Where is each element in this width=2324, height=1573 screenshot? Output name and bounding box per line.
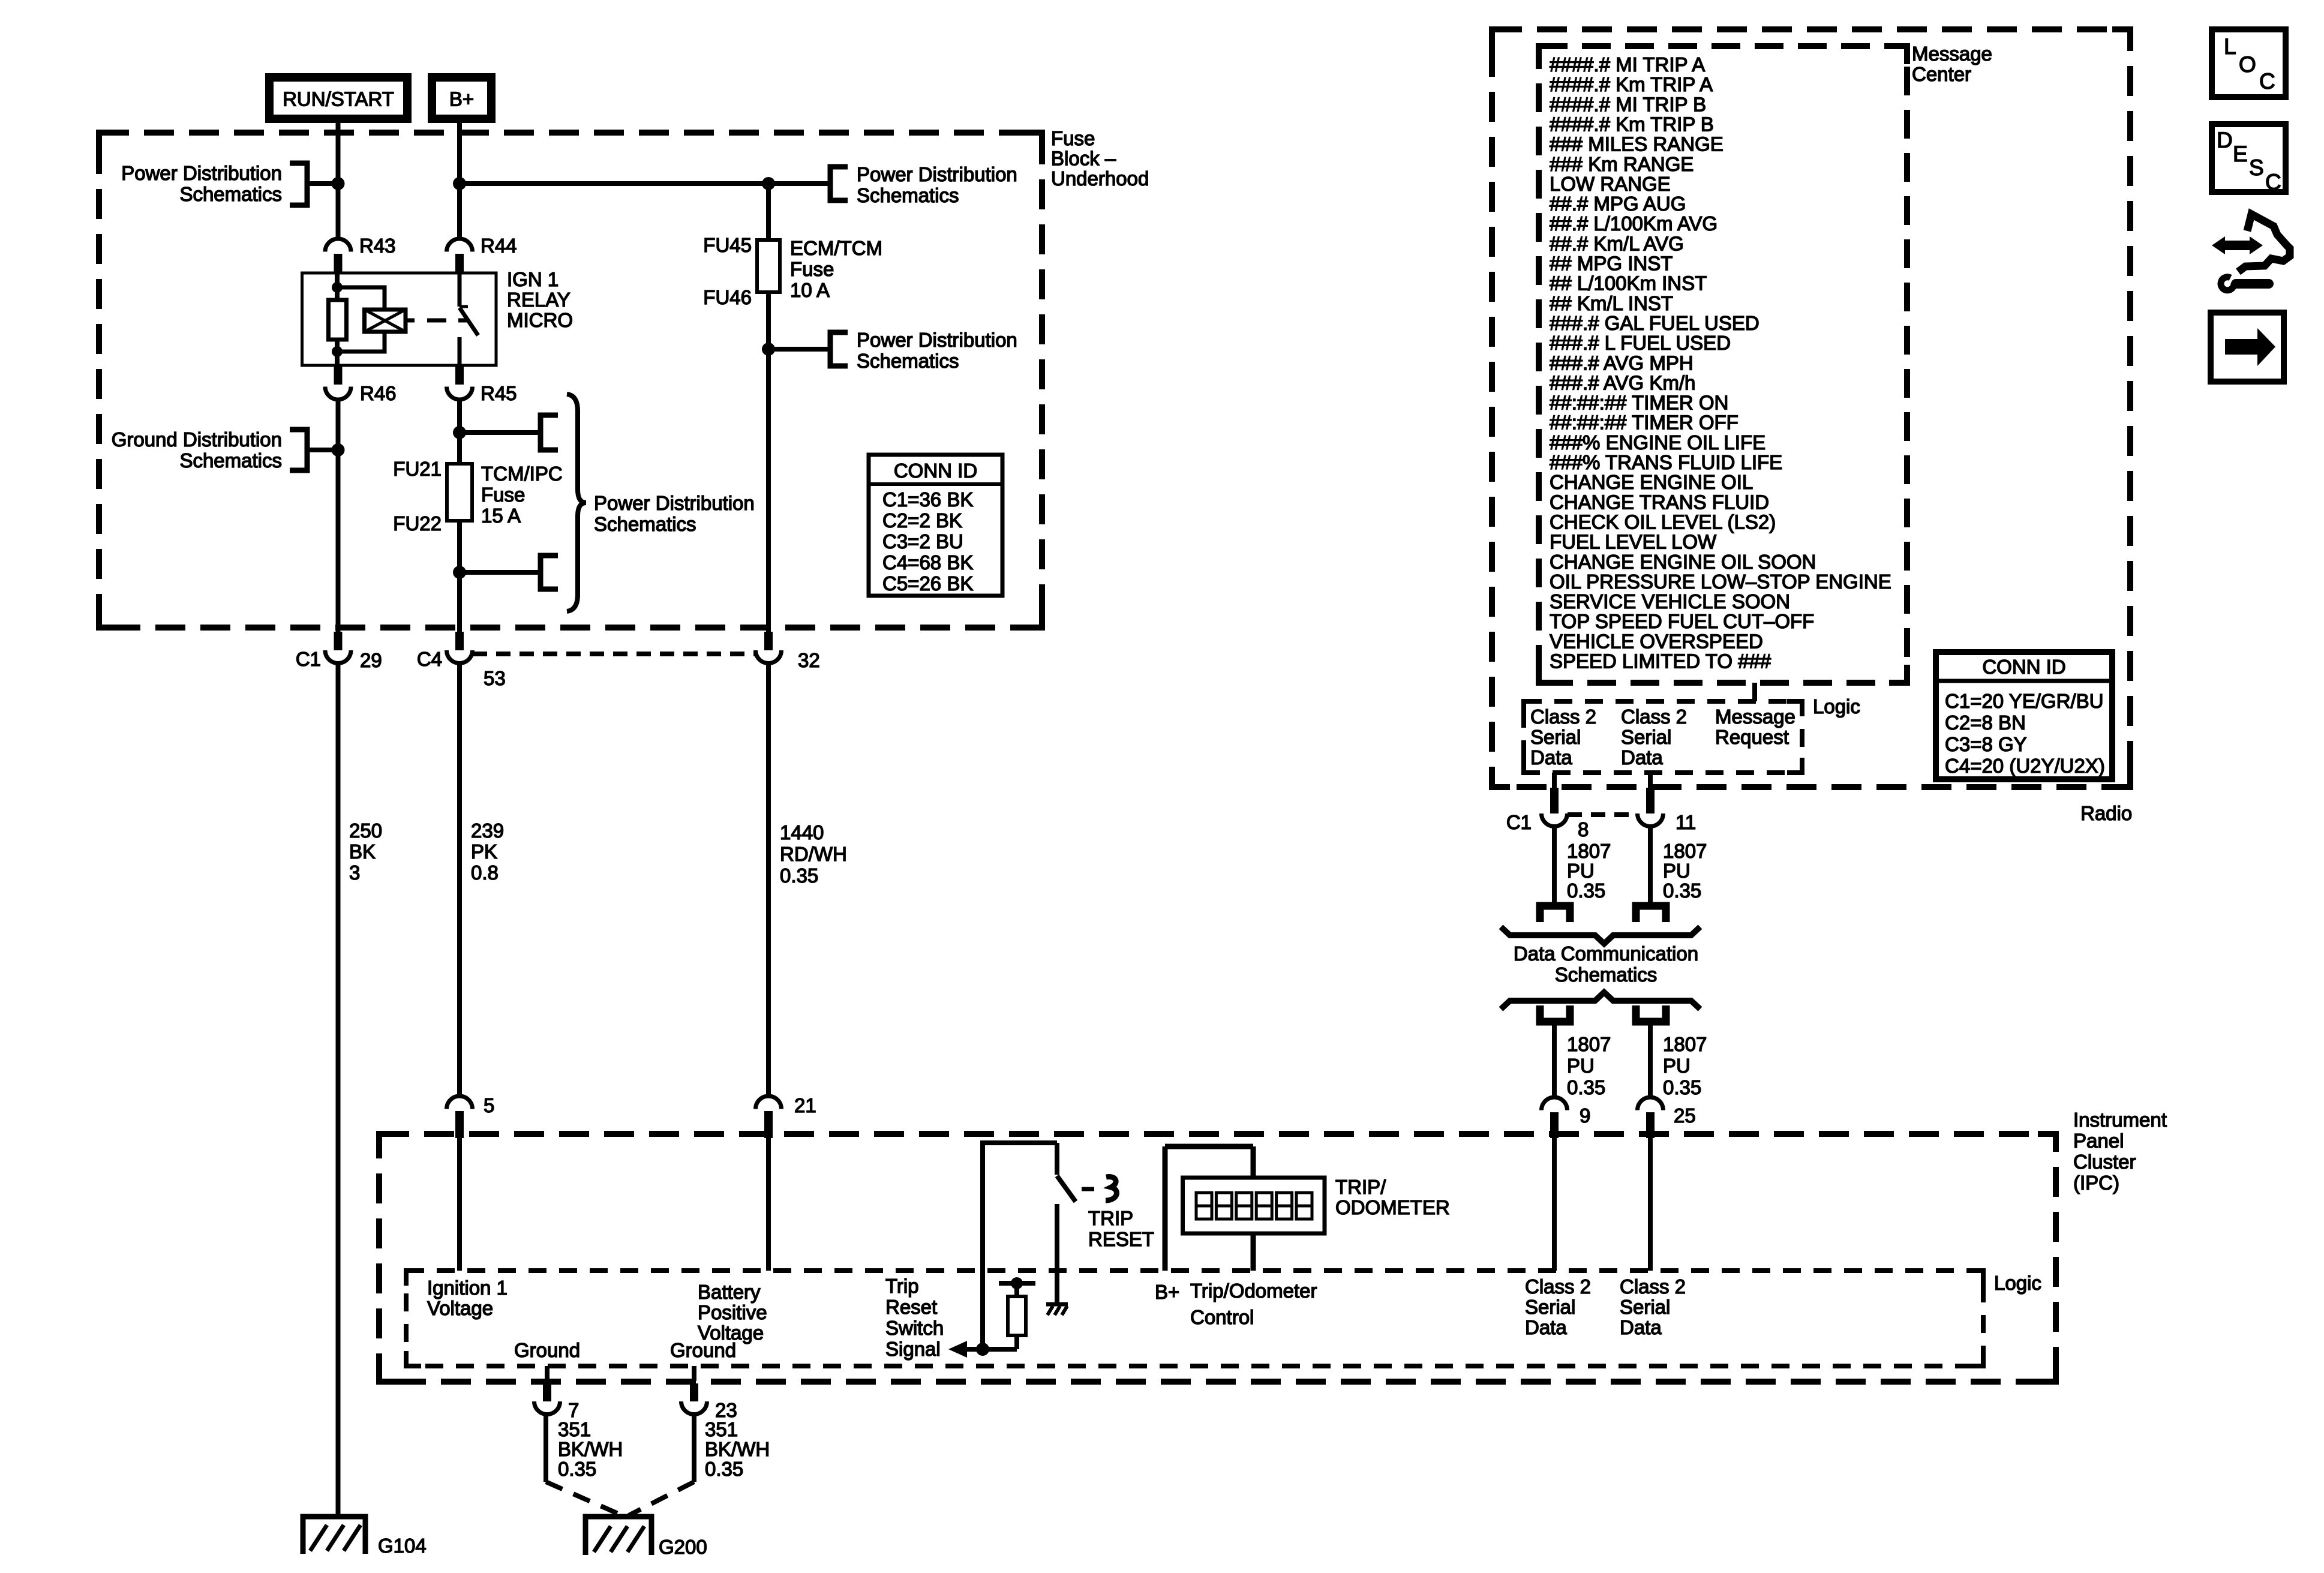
pullup resistor wire bottom — [1014, 1335, 1019, 1349]
svg-text:Cluster: Cluster — [2073, 1151, 2136, 1173]
label 8 — [1578, 818, 1589, 840]
svg-text:Class 2: Class 2 — [1530, 706, 1596, 728]
brace power distribution schematics — [567, 394, 586, 611]
svg-text:1807: 1807 — [1663, 840, 1707, 862]
svg-text:Instrument: Instrument — [2073, 1109, 2167, 1131]
svg-text:FU45: FU45 — [703, 234, 752, 256]
svg-text:###.# AVG MPH: ###.# AVG MPH — [1550, 352, 1694, 374]
svg-text:0.35: 0.35 — [1663, 879, 1701, 902]
svg-text:Trip/Odometer: Trip/Odometer — [1190, 1280, 1317, 1302]
svg-text:R43: R43 — [359, 235, 396, 257]
svg-text:Serial: Serial — [1525, 1296, 1575, 1318]
svg-text:MICRO: MICRO — [507, 309, 573, 331]
label Battery Positive Voltage — [698, 1281, 767, 1344]
junction node ground distribution — [332, 443, 345, 457]
svg-text:Fuse: Fuse — [1051, 127, 1095, 149]
svg-text:Data: Data — [1620, 1316, 1662, 1338]
svg-text:PU: PU — [1567, 860, 1595, 882]
svg-text:FU22: FU22 — [393, 512, 442, 535]
svg-text:B+: B+ — [1155, 1281, 1179, 1303]
svg-text:Power Distribution: Power Distribution — [857, 163, 1017, 185]
svg-text:ECM/TCM: ECM/TCM — [790, 237, 882, 259]
connector R44 — [447, 239, 473, 273]
wire 351 left — [544, 1415, 548, 1482]
svg-text:C2=8 BN: C2=8 BN — [1945, 712, 2026, 734]
wire 351 right — [692, 1415, 696, 1482]
svg-text:Serial: Serial — [1620, 1296, 1670, 1318]
svg-text:C3=8 GY: C3=8 GY — [1945, 733, 2027, 755]
label Class 2 Serial Data (radio right) — [1621, 706, 1687, 769]
svg-text:R45: R45 — [481, 382, 517, 404]
label Radio — [2080, 802, 2132, 824]
wire class 2 serial data IPC right — [1648, 1138, 1653, 1271]
junction node above fuse — [453, 426, 466, 439]
junction node RUN/START wire — [332, 177, 345, 190]
label 23 — [715, 1399, 737, 1421]
svg-text:Switch: Switch — [885, 1317, 944, 1339]
svg-text:C2=2 BK: C2=2 BK — [882, 509, 962, 532]
connector R45 — [447, 365, 473, 400]
label 32 — [798, 649, 820, 671]
wire ignition 1 voltage inside IPC — [457, 1138, 462, 1271]
wire 1807 PU upper left — [1552, 827, 1557, 903]
svg-text:## MPG INST: ## MPG INST — [1550, 253, 1673, 275]
svg-text:Schematics: Schematics — [857, 184, 959, 206]
label wire 1440 RD/WH 0.35 — [780, 821, 847, 887]
label TRIP/ODOMETER — [1335, 1176, 1450, 1218]
relay coil loop wire top — [337, 287, 385, 310]
svg-text:C1=36 BK: C1=36 BK — [882, 488, 973, 511]
label C1 (radio) — [1506, 811, 1532, 833]
svg-text:C5=26 BK: C5=26 BK — [882, 572, 973, 595]
label Ground 1 — [514, 1339, 580, 1361]
message center display lines — [1550, 53, 1891, 673]
label 7 — [568, 1399, 579, 1421]
wire RUN/START to relay R43 — [336, 123, 341, 238]
wire class 2 serial data radio left stub — [1552, 773, 1557, 788]
wire R46 to fuse block bottom — [336, 400, 341, 632]
svg-text:ODOMETER: ODOMETER — [1335, 1196, 1450, 1218]
svg-text:RELAY: RELAY — [507, 289, 571, 311]
off-page stub upper (power distribution) — [541, 415, 558, 450]
svg-text:Battery: Battery — [698, 1281, 761, 1303]
svg-text:VEHICLE OVERSPEED: VEHICLE OVERSPEED — [1550, 630, 1763, 652]
svg-text:C1: C1 — [296, 648, 321, 670]
wire trip reset signal vertical — [980, 1143, 985, 1349]
svg-text:O: O — [2239, 52, 2256, 77]
wire 1440 RD/WH 0.35 (32 to IPC 21) — [766, 664, 771, 1097]
svg-text:Ground: Ground — [514, 1339, 580, 1361]
svg-text:##:##:## TIMER OFF: ##:##:## TIMER OFF — [1550, 412, 1739, 434]
connector IPC pin 21 — [756, 1096, 782, 1138]
label 21 — [794, 1094, 816, 1116]
label R43 — [359, 235, 396, 257]
svg-text:###.# L FUEL USED: ###.# L FUEL USED — [1550, 332, 1731, 354]
relay coil wire bottom — [335, 340, 340, 365]
svg-text:CHANGE ENGINE OIL: CHANGE ENGINE OIL — [1550, 471, 1753, 493]
wire B+ branch down to FU45 — [766, 184, 771, 240]
table CONN ID fuse block — [869, 455, 1002, 596]
label Ground 2 — [670, 1339, 736, 1361]
pullup resistor top bar — [999, 1281, 1035, 1286]
icon wrench and arrow — [2212, 214, 2290, 290]
svg-text:1440: 1440 — [780, 821, 824, 843]
svg-text:C3=2 BU: C3=2 BU — [882, 530, 963, 553]
svg-text:CONN ID: CONN ID — [894, 460, 977, 482]
wire to power distribution right — [768, 181, 830, 186]
svg-text:L: L — [2224, 34, 2236, 59]
label R44 — [481, 235, 517, 257]
svg-text:Data: Data — [1530, 746, 1572, 769]
icon LOC box — [2212, 29, 2286, 97]
label TRIP RESET — [1088, 1207, 1154, 1250]
label Class 2 Serial Data (radio left) — [1530, 706, 1596, 769]
harness hook upper left — [1540, 906, 1570, 922]
label C4 — [417, 648, 442, 670]
splice dashed wire left to G200 — [546, 1482, 622, 1515]
svg-text:RESET: RESET — [1088, 1228, 1154, 1250]
svg-text:1807: 1807 — [1567, 1033, 1611, 1055]
relay linkage tick at switch — [458, 319, 467, 323]
wire battery positive voltage inside IPC — [766, 1138, 771, 1271]
svg-text:Ignition 1: Ignition 1 — [427, 1277, 508, 1299]
svg-text:11: 11 — [1676, 811, 1696, 833]
svg-text:Center: Center — [1912, 63, 1971, 85]
svg-text:Trip: Trip — [885, 1275, 919, 1297]
svg-text:Data: Data — [1621, 746, 1663, 769]
svg-text:0.35: 0.35 — [1663, 1076, 1701, 1098]
wire class 2 serial data IPC left — [1552, 1138, 1557, 1271]
svg-text:SPEED LIMITED TO ###: SPEED LIMITED TO ### — [1550, 650, 1771, 673]
svg-text:R44: R44 — [481, 235, 517, 257]
svg-text:25: 25 — [1674, 1104, 1696, 1127]
label Logic (IPC) — [1994, 1272, 2041, 1294]
label wire 351 BK/WH 0.35 left — [558, 1418, 623, 1480]
svg-text:RUN/START: RUN/START — [283, 88, 394, 110]
svg-text:S: S — [2249, 155, 2264, 180]
svg-text:PK: PK — [471, 840, 497, 863]
svg-text:## L/100Km INST: ## L/100Km INST — [1550, 272, 1707, 295]
svg-text:PU: PU — [1663, 860, 1691, 882]
connector R46 — [325, 365, 351, 400]
label wire 351 BK/WH 0.35 right — [705, 1418, 770, 1480]
wire class 2 serial data radio right stub — [1648, 773, 1653, 788]
connector R43 — [325, 239, 351, 273]
trip reset actuator symbol — [1106, 1177, 1117, 1200]
ground G200 — [585, 1517, 651, 1555]
ground symbol (switch, internal) — [1046, 1304, 1068, 1315]
label 11 — [1676, 811, 1696, 833]
label ECM/TCM Fuse 10 A — [790, 237, 882, 301]
wire 250 BK 3 (C1-29 to G104) — [336, 664, 341, 1515]
svg-text:####.# MI TRIP B: ####.# MI TRIP B — [1550, 93, 1706, 115]
svg-text:Fuse: Fuse — [790, 258, 834, 280]
svg-text:Schematics: Schematics — [179, 183, 282, 205]
label wire 1807 PU 0.35 lower right — [1663, 1033, 1707, 1098]
svg-text:### Km RANGE: ### Km RANGE — [1550, 153, 1694, 175]
svg-text:###% TRANS FLUID LIFE: ###% TRANS FLUID LIFE — [1550, 451, 1782, 473]
svg-text:Power Distribution: Power Distribution — [857, 329, 1017, 351]
svg-text:351: 351 — [705, 1418, 738, 1440]
connector ground pin 7 — [535, 1383, 560, 1415]
trip reset linkage dash — [1082, 1187, 1094, 1191]
arrow trip reset switch signal — [948, 1341, 967, 1358]
connector IPC pin 5 — [447, 1096, 473, 1138]
svg-text:32: 32 — [798, 649, 820, 671]
relay coil junction top — [332, 282, 343, 293]
svg-text:239: 239 — [471, 819, 504, 842]
label FU45 — [703, 234, 752, 256]
label B+ (IPC) — [1155, 1281, 1179, 1303]
svg-text:FUEL LEVEL LOW: FUEL LEVEL LOW — [1550, 531, 1717, 553]
wire 23 stub — [692, 1366, 696, 1381]
harness hook lower left — [1540, 1005, 1570, 1022]
fuse TCM/IPC FU21/FU22 — [447, 464, 472, 521]
svg-text:Data: Data — [1525, 1316, 1567, 1338]
svg-text:Voltage: Voltage — [427, 1297, 493, 1319]
svg-text:FU46: FU46 — [703, 286, 752, 308]
wire trip reset signal horizontal — [966, 1347, 1017, 1352]
svg-text:TOP SPEED FUEL CUT–OFF: TOP SPEED FUEL CUT–OFF — [1550, 610, 1814, 632]
svg-text:RD/WH: RD/WH — [780, 843, 847, 865]
junction node power distribution mid — [762, 343, 775, 356]
off-page reference Power Distribution Schematics (top right) — [830, 163, 1017, 206]
power feed box B+ — [432, 77, 491, 119]
wire trip odometer bottom — [1251, 1233, 1256, 1271]
label Message Center — [1912, 43, 1992, 85]
svg-text:1807: 1807 — [1567, 840, 1611, 862]
svg-text:###% ENGINE OIL LIFE: ###% ENGINE OIL LIFE — [1550, 431, 1765, 454]
svg-text:TRIP: TRIP — [1088, 1207, 1133, 1229]
svg-text:CONN ID: CONN ID — [1982, 656, 2065, 678]
svg-text:351: 351 — [558, 1418, 591, 1440]
svg-text:####.# Km TRIP B: ####.# Km TRIP B — [1550, 113, 1714, 135]
label wire 239 PK 0.8 — [471, 819, 504, 884]
wire to power distribution mid right — [768, 347, 830, 352]
label Trip/Odometer Control — [1190, 1280, 1317, 1328]
off-page reference Ground Distribution Schematics — [112, 428, 338, 472]
connector IPC pin 9 — [1542, 1097, 1568, 1138]
radio logic dashed box — [1524, 701, 1802, 773]
wire R45 to fuse FU21 — [457, 400, 462, 464]
junction node B+ wire — [453, 177, 466, 190]
svg-text:Data Communication: Data Communication — [1514, 942, 1698, 965]
svg-text:Schematics: Schematics — [1555, 963, 1658, 986]
off-page reference Power Distribution Schematics (top left) — [121, 162, 338, 205]
svg-text:8: 8 — [1578, 818, 1589, 840]
brace data communication lower — [1501, 992, 1700, 1009]
connector radio C1 pin 8 — [1542, 788, 1568, 826]
svg-text:BK: BK — [349, 840, 376, 863]
relay linkage dash — [427, 319, 446, 323]
fuse block underhood dashed box — [99, 133, 1042, 628]
svg-text:##.# MPG AUG: ##.# MPG AUG — [1550, 193, 1686, 215]
label 53 — [484, 667, 506, 689]
wire ground 7 stub — [545, 1366, 550, 1381]
wire fuse FU22 down — [457, 521, 462, 632]
relay coil wire top — [335, 273, 340, 300]
label FU46 — [703, 286, 752, 308]
trip reset switch lower contact — [1055, 1204, 1059, 1304]
junction node trip reset signal — [976, 1343, 989, 1356]
label 25 — [1674, 1104, 1696, 1127]
svg-text:0.35: 0.35 — [1567, 1076, 1605, 1098]
label G200 — [659, 1536, 707, 1558]
svg-text:## Km/L INST: ## Km/L INST — [1550, 292, 1673, 314]
svg-text:B+: B+ — [449, 88, 474, 110]
svg-text:Schematics: Schematics — [594, 513, 696, 535]
svg-text:Schematics: Schematics — [857, 350, 959, 372]
svg-text:9: 9 — [1580, 1104, 1590, 1127]
svg-text:Ground: Ground — [670, 1339, 736, 1361]
relay solenoid X-box — [365, 310, 406, 332]
power feed box RUN/START — [269, 77, 407, 119]
radio dashed box — [1492, 29, 2130, 787]
svg-text:0.35: 0.35 — [780, 864, 818, 887]
IPC logic dashed box — [406, 1271, 1983, 1366]
icon DESC box — [2212, 124, 2286, 194]
label 5 — [484, 1094, 494, 1116]
svg-text:0.35: 0.35 — [558, 1458, 596, 1480]
svg-text:G104: G104 — [378, 1535, 427, 1557]
svg-text:Serial: Serial — [1621, 726, 1671, 748]
label Class 2 Serial Data (IPC left) — [1525, 1275, 1591, 1338]
svg-text:Class 2: Class 2 — [1620, 1275, 1686, 1298]
label Logic (radio) — [1813, 695, 1860, 718]
label Fuse Block - Underhood — [1051, 127, 1149, 190]
label wire 1807 PU 0.35 upper left — [1567, 840, 1611, 902]
svg-text:Message: Message — [1715, 706, 1795, 728]
svg-text:####.# Km TRIP A: ####.# Km TRIP A — [1550, 73, 1713, 95]
pullup resistor top node — [1011, 1277, 1023, 1289]
svg-text:###.# AVG Km/h: ###.# AVG Km/h — [1550, 371, 1695, 394]
svg-text:Control: Control — [1190, 1306, 1254, 1328]
svg-text:###.# GAL FUEL USED: ###.# GAL FUEL USED — [1550, 312, 1759, 334]
connector body line C4 to 32 — [473, 652, 755, 656]
svg-text:IGN 1: IGN 1 — [507, 268, 559, 290]
svg-text:Logic: Logic — [1813, 695, 1860, 718]
label TCM/IPC Fuse 15 A — [481, 463, 563, 527]
harness hook upper right — [1636, 906, 1666, 922]
relay armature stub — [406, 319, 415, 323]
svg-text:G200: G200 — [659, 1536, 707, 1558]
svg-text:0.8: 0.8 — [471, 861, 499, 884]
wire message center logic stub — [1752, 683, 1757, 701]
trip/odometer digit segments — [1196, 1193, 1312, 1219]
svg-text:1807: 1807 — [1663, 1033, 1707, 1055]
svg-text:Panel: Panel — [2073, 1130, 2124, 1152]
svg-text:PU: PU — [1663, 1055, 1691, 1077]
svg-text:C4=20 (U2Y/U2X): C4=20 (U2Y/U2X) — [1945, 755, 2105, 777]
relay coil loop wire bottom — [337, 332, 385, 352]
svg-text:##.# Km/L AVG: ##.# Km/L AVG — [1550, 232, 1684, 254]
svg-text:Class 2: Class 2 — [1621, 706, 1687, 728]
label wire 1807 PU 0.35 upper right — [1663, 840, 1707, 902]
svg-text:CHECK OIL LEVEL (LS2): CHECK OIL LEVEL (LS2) — [1550, 511, 1776, 533]
svg-text:C4=68 BK: C4=68 BK — [882, 551, 973, 574]
connector IPC pin 25 — [1638, 1097, 1664, 1138]
svg-text:3: 3 — [349, 861, 360, 884]
wire 1807 PU upper right — [1648, 827, 1653, 903]
svg-text:C1: C1 — [1506, 811, 1532, 833]
label G104 — [378, 1535, 427, 1557]
svg-text:Underhood: Underhood — [1051, 167, 1149, 190]
svg-text:Signal: Signal — [885, 1338, 941, 1360]
label wire 1807 PU 0.35 lower left — [1567, 1033, 1611, 1098]
label R45 — [481, 382, 517, 404]
wire trip reset top — [980, 1140, 1057, 1145]
svg-text:Schematics: Schematics — [179, 449, 282, 472]
svg-text:C1=20 YE/GR/BU: C1=20 YE/GR/BU — [1945, 690, 2103, 712]
relay switch fixed contact bottom — [458, 337, 462, 365]
wire B+ trip odometer left — [1163, 1146, 1168, 1271]
relay switch fixed contact top — [460, 273, 468, 307]
svg-text:53: 53 — [484, 667, 506, 689]
connector pin 32 — [756, 632, 782, 664]
svg-text:Block –: Block – — [1051, 148, 1116, 170]
harness hook lower right — [1636, 1005, 1666, 1022]
wire B+ to relay R44 — [457, 123, 462, 238]
svg-text:CHANGE TRANS FLUID: CHANGE TRANS FLUID — [1550, 491, 1769, 513]
svg-text:TCM/IPC: TCM/IPC — [481, 463, 563, 485]
svg-text:C: C — [2265, 170, 2281, 194]
relay coil junction bottom — [332, 346, 343, 357]
svg-text:OIL PRESSURE LOW–STOP ENGINE: OIL PRESSURE LOW–STOP ENGINE — [1550, 571, 1891, 593]
icon arrow box — [2211, 313, 2284, 382]
ground G104 — [303, 1517, 365, 1554]
label wire 250 BK 3 — [349, 819, 382, 884]
relay switch blade — [460, 308, 478, 335]
off-page reference Power Distribution Schematics (mid) — [830, 329, 1017, 372]
svg-text:15 A: 15 A — [481, 505, 521, 527]
resistor (trip reset pullup) — [1008, 1296, 1026, 1335]
relay coil resistor — [329, 300, 347, 340]
label Class 2 Serial Data (IPC right) — [1620, 1275, 1686, 1338]
table CONN ID radio — [1936, 652, 2112, 779]
wire to stub upper right — [460, 430, 541, 435]
svg-text:Radio: Radio — [2080, 802, 2132, 824]
svg-text:BK/WH: BK/WH — [558, 1438, 623, 1460]
svg-text:FU21: FU21 — [393, 458, 442, 480]
svg-text:5: 5 — [484, 1094, 494, 1116]
label FU22 — [393, 512, 442, 535]
label Ignition 1 Voltage — [427, 1277, 508, 1319]
relay IGN 1 RELAY MICRO box — [302, 273, 497, 365]
svg-text:BK/WH: BK/WH — [705, 1438, 770, 1460]
svg-text:Ground Distribution: Ground Distribution — [112, 428, 282, 451]
svg-text:Serial: Serial — [1530, 726, 1581, 748]
wire 1807 PU lower right — [1648, 1025, 1653, 1097]
svg-text:D: D — [2217, 128, 2233, 152]
label Data Communication Schematics — [1514, 942, 1698, 986]
trip/odometer display box — [1183, 1178, 1325, 1233]
label 29 — [360, 649, 382, 671]
label Trip Reset Switch Signal — [885, 1275, 944, 1360]
svg-text:E: E — [2233, 142, 2248, 166]
svg-text:Fuse: Fuse — [481, 484, 525, 506]
connector body line C1-8 to 11 — [1568, 812, 1637, 817]
svg-text:####.# MI TRIP A: ####.# MI TRIP A — [1550, 53, 1705, 76]
svg-text:Logic: Logic — [1994, 1272, 2041, 1294]
connector radio pin 11 — [1638, 788, 1664, 826]
svg-text:Reset: Reset — [885, 1296, 937, 1318]
svg-text:C: C — [2259, 69, 2275, 94]
svg-text:Request: Request — [1715, 726, 1789, 748]
svg-text:CHANGE ENGINE OIL SOON: CHANGE ENGINE OIL SOON — [1550, 551, 1816, 573]
svg-text:SERVICE VEHICLE SOON: SERVICE VEHICLE SOON — [1550, 590, 1790, 613]
label IGN 1 RELAY MICRO — [507, 268, 573, 331]
junction node ECM/TCM fuse wire top — [762, 177, 775, 190]
